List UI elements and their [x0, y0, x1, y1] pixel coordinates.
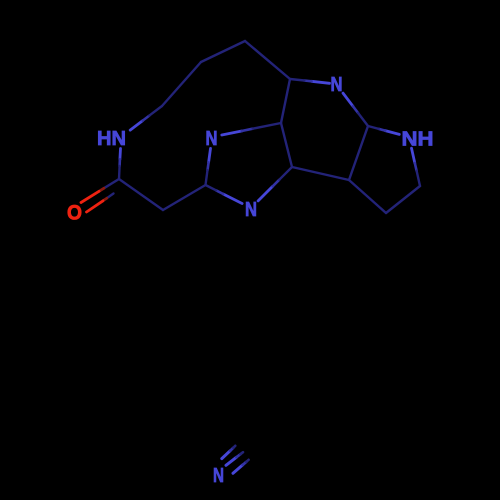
bond C3ap-C7ap: [349, 126, 368, 180]
svg-text:N: N: [245, 199, 257, 221]
bond NHp-C2p: [412, 148, 421, 186]
bond C3ai-C7ai: [281, 123, 292, 167]
bond C2p-C3p: [386, 186, 420, 213]
bond C7ai-C6r: [281, 79, 290, 123]
bond Npyr-C7ap: [343, 93, 368, 126]
svg-text:N: N: [206, 128, 218, 150]
svg-text:O: O: [67, 202, 82, 225]
bond CH2a-CH2b: [162, 62, 201, 106]
bond N3i-C3ai: [258, 167, 292, 201]
svg-text:NH: NH: [402, 129, 434, 151]
svg-text:N: N: [213, 465, 224, 487]
bond CH2c-Cco: [119, 179, 163, 210]
bond CH2b-C5p: [201, 41, 245, 62]
bond C2i-CH2c: [163, 185, 206, 210]
svg-text:HN: HN: [97, 128, 126, 150]
bond Nam-Cco: [119, 149, 121, 180]
double bond C=O: [81, 179, 119, 212]
acetonitrile CH3-C#N: [222, 446, 249, 474]
bond C5p-C6r: [245, 41, 290, 79]
bond Nam-CH2a: [130, 106, 162, 130]
bond C3p-C3ap: [349, 180, 386, 213]
bond C3ap-C3ai: [292, 167, 349, 180]
bond NHp-C7ap: [368, 126, 399, 134]
bond N3i-C2i: [206, 185, 243, 204]
bond N1i-C2i: [206, 148, 211, 185]
bond N1i-C7ai: [222, 123, 281, 135]
svg-text:N: N: [331, 74, 343, 96]
bond Npyr-C6r: [290, 79, 330, 83]
